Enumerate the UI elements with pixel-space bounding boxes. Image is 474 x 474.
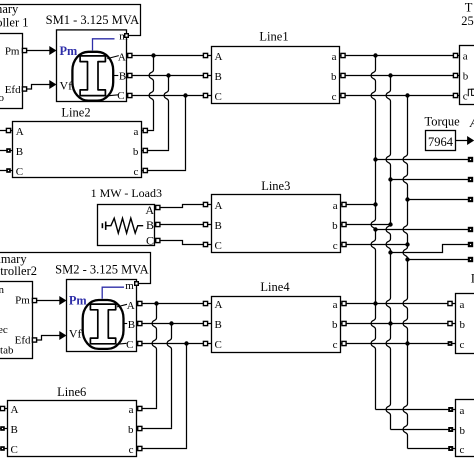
port Line4.a — [342, 301, 346, 305]
port SM2.B — [138, 321, 142, 325]
junction bus3 top — [405, 93, 409, 97]
port east-load.c — [448, 341, 453, 346]
SM1 machine circle icon — [72, 52, 113, 101]
wire into Line6.c — [137, 448, 188, 450]
port Line2.a — [143, 128, 147, 132]
wire Efd2: controller2 Efd to SM2 Vf input — [33, 336, 61, 341]
block U1 Primary Controller 1 (clipped at left) — [0, 2, 29, 108]
junction bus3 tap1 — [405, 197, 409, 201]
wire drop to Line6.a — [152, 304, 156, 408]
wire rowB: Line1.b to transformer b — [340, 75, 460, 77]
wire tap1-b to edge port — [391, 179, 469, 181]
wire SM1.A out / port — [127, 55, 212, 57]
port SM1.B — [128, 73, 132, 77]
port Line3.a — [342, 202, 346, 206]
wire Efd1: controller1 Efd to SM1 Vf input — [23, 85, 51, 90]
junction rowB2 to Line6.b — [169, 321, 173, 325]
port edge tap2.c — [468, 257, 473, 262]
port Line4.A — [203, 301, 207, 305]
wire drop to Line2.b — [164, 76, 168, 150]
port Line1.b — [341, 73, 345, 77]
wire stub Line2.A — [0, 130, 13, 132]
port bottom-right.a — [448, 407, 453, 412]
port Line6.c — [138, 446, 142, 450]
wire Line4.a east to load a — [341, 303, 456, 305]
junction bus2 top — [388, 73, 392, 77]
block Line4 — [212, 280, 341, 353]
wire from 7964 display — [456, 140, 468, 142]
wire Load3.C to Line3.C — [155, 241, 212, 245]
port Line2.A — [6, 128, 10, 132]
wire drop to Line2.c — [185, 96, 187, 170]
junction rowA2 to Line6.a — [154, 301, 158, 305]
SM1 connector to B label — [114, 75, 119, 77]
block SM1 - 3.125 MVA synchronous machine — [46, 13, 140, 102]
SM1 connector to A label — [107, 56, 119, 59]
port Line4.b — [342, 321, 346, 325]
wire SM2.A out — [137, 303, 212, 305]
wire Line3.a to bus1 — [341, 204, 376, 206]
port Line1.C — [203, 93, 207, 97]
port edge tap1.a — [468, 157, 473, 162]
display block Torque 7964 — [425, 114, 474, 150]
wire stub Line6.C — [0, 448, 8, 450]
wire m1 feedback: SM1 m port around top edge to controller 1 — [0, 5, 141, 36]
wire SM2.B out — [137, 323, 212, 325]
port Load3.C — [156, 238, 160, 242]
wire drop to Line6.b — [167, 324, 171, 428]
wire bus2 bottom to block b — [391, 429, 456, 431]
junction rowC to Line2.c — [183, 93, 187, 97]
block Line1 — [212, 29, 340, 103]
wire tap2-b stepped to edge port — [391, 245, 469, 253]
block Load3 1 MW — [91, 186, 162, 248]
wire SM1.C out — [127, 95, 212, 97]
port SM2.C — [138, 341, 142, 345]
wire SM1.B out — [127, 75, 212, 77]
SM2 machine circle icon — [83, 300, 124, 349]
wire bus1 bottom to block a — [376, 409, 456, 411]
SM2 rotor I-beam icon — [90, 304, 115, 344]
junction bus2 tap1 — [388, 177, 392, 181]
port edge tap2.b — [468, 242, 473, 247]
svg-text:Pm: Pm — [60, 44, 79, 58]
wire tap2-c to edge port — [408, 259, 469, 261]
arrowhead into SM2.Pm — [59, 296, 66, 305]
Load3 resistor zigzag — [106, 218, 144, 233]
port U2.Pm output — [32, 298, 36, 302]
block Line6 — [8, 385, 137, 457]
wire tap1-c to edge port — [408, 199, 469, 201]
block Line2 — [13, 106, 142, 179]
junction rowA to Line2.a — [151, 53, 155, 57]
junction bus1 tap1 — [373, 157, 377, 161]
port east-load.b — [448, 321, 452, 325]
port edge tap2.a — [468, 227, 473, 232]
arrowhead Torque — [467, 136, 474, 145]
junction rowB to Line2.b — [166, 73, 170, 77]
port Line6.a — [138, 406, 142, 410]
wire Line4.b east to load b — [341, 323, 456, 325]
wire drop to Line6.c — [186, 344, 188, 448]
port Line6.A — [0, 406, 4, 410]
port U2.Efd output — [32, 338, 36, 342]
junction bus2 tap2 — [388, 250, 392, 254]
SM1 rotor I-beam icon — [80, 56, 105, 96]
junction bus3 rowC2 — [405, 341, 409, 345]
wire tap1-a to edge port — [376, 159, 469, 161]
wire rowA: Line1.a to transformer a — [340, 55, 460, 57]
port T.b — [453, 73, 457, 77]
SM2 blue m measurement wire — [102, 287, 124, 299]
bus phase-b vertical — [386, 76, 390, 430]
arrowhead into SM2.Vf — [59, 331, 66, 340]
port Line3.c — [342, 242, 346, 246]
port Load3.B — [156, 222, 160, 226]
port Line4.B — [203, 321, 207, 325]
wire stub Line6.A — [0, 408, 8, 410]
wire stub Line2.C — [0, 170, 13, 172]
port SM1.C — [128, 93, 132, 97]
port T.a — [453, 53, 457, 57]
port east-load.a — [448, 301, 452, 305]
wire SM2.C out — [137, 343, 212, 345]
port Load3.A — [156, 205, 160, 209]
wire Load3.B to Line3.B — [155, 224, 212, 226]
port Line3.C — [203, 242, 207, 246]
junction Line3.c bus3 — [405, 242, 409, 246]
SM2 connector to C label — [116, 343, 127, 344]
wire Pm2: controller2 Pm to SM2 Pm input — [33, 300, 61, 302]
port Line1.a — [341, 53, 345, 57]
wire m2 feedback: SM2 m port around left to controller 2 — [0, 253, 151, 284]
junction Line3.b bus2 — [388, 222, 392, 226]
wire into Line6.a — [137, 408, 158, 410]
port SM2.A — [138, 301, 142, 305]
port Line6.B — [0, 426, 5, 431]
wire Line3.b to bus2 — [341, 224, 391, 226]
port Line3.B — [203, 222, 207, 226]
port Line2.B — [6, 148, 11, 153]
port Line1.A — [203, 53, 207, 57]
wire drop to Line2.a — [149, 56, 153, 130]
block east load (clipped at right) — [456, 272, 474, 354]
port Line4.c — [342, 341, 346, 345]
junction rowC2 to Line6.c — [184, 341, 188, 345]
SM1 blue m measurement wire — [93, 39, 115, 51]
junction bus1 top — [373, 53, 377, 57]
wire stub Line2.B — [0, 150, 13, 152]
port T.c — [453, 93, 457, 97]
port U1.Pm output — [22, 48, 26, 52]
wire into Line2.c — [142, 170, 187, 172]
port bottom-right.b — [448, 427, 453, 432]
junction Line3.a bus1 — [373, 202, 377, 206]
wire Line4.c east to load c — [341, 343, 456, 345]
svg-text:Pm: Pm — [69, 293, 88, 307]
port Line4.C — [203, 341, 207, 345]
block T transformer 25kV (clipped at right) — [460, 1, 474, 105]
SM2 connector to B label — [123, 323, 127, 325]
bus phase-c vertical — [403, 96, 407, 449]
junction bus3 tap2 — [405, 257, 409, 261]
wire Pm1: controller1 Pm to SM1 Pm input — [23, 50, 51, 52]
port Line3.A — [203, 202, 207, 206]
block bottom-right (clipped at right) — [456, 400, 474, 457]
wire bus3 bottom to block c — [408, 448, 456, 450]
wire stub Line6.B — [0, 428, 8, 430]
port Line6.C — [0, 446, 5, 451]
T.c small icon — [468, 89, 474, 96]
port SM1.A — [128, 53, 132, 57]
port edge tap1.b — [468, 177, 473, 182]
Load3 resistor icon ground bars — [101, 223, 103, 228]
port Line2.b — [143, 148, 147, 152]
port Line3.b — [342, 222, 346, 226]
wire tap2-a to edge port — [376, 229, 469, 231]
wire into Line6.b — [137, 428, 173, 430]
port SM2.m — [135, 282, 139, 286]
wire Line3.c to bus3 — [341, 244, 408, 246]
wire into Line2.a — [142, 130, 155, 132]
arrowhead into SM1.Vf — [49, 80, 56, 89]
SM1 connector to C label — [106, 95, 118, 96]
bus phase-a vertical — [371, 56, 375, 410]
port Line2.C — [6, 168, 11, 173]
port Line1.B — [203, 73, 207, 77]
wire Load3.A to Line3.A — [155, 205, 212, 208]
port SM1.m — [125, 34, 129, 38]
arrowhead into SM1.Pm — [49, 46, 56, 55]
wire into Line2.b — [142, 150, 170, 152]
port Line1.c — [341, 93, 345, 97]
SM2 connector to A label — [117, 304, 127, 307]
port bottom-right.c — [448, 446, 453, 451]
junction bus1 rowA2 — [373, 301, 377, 305]
port U1.Efd output — [22, 87, 26, 91]
block Line3 — [212, 179, 341, 253]
junction bus1 tap2 — [373, 227, 377, 231]
block U2 Primary Controller2 (clipped at left) — [0, 252, 37, 359]
port edge tap1.c — [468, 197, 473, 202]
block SM2 - 3.125 MVA synchronous machine — [55, 262, 149, 351]
port Line6.b — [138, 426, 142, 430]
port Line2.c — [143, 168, 147, 172]
junction bus2 rowB2 — [388, 321, 392, 325]
wire rowC: Line1.c to transformer c — [340, 95, 460, 97]
